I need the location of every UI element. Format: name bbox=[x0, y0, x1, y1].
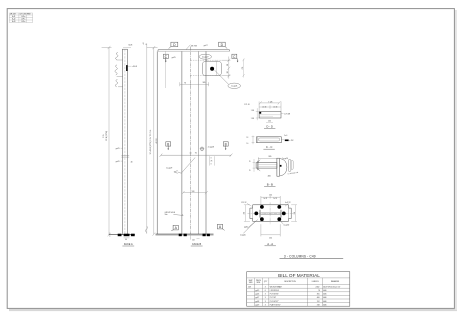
bracket plate outline bbox=[202, 61, 221, 75]
svg-text:58 7/8: 58 7/8 bbox=[191, 45, 198, 47]
A-A center lines bbox=[269, 202, 271, 224]
base left tick bbox=[109, 232, 111, 237]
svg-text:152: 152 bbox=[269, 195, 272, 197]
section A-A bbox=[240, 195, 297, 246]
58 7/8 dim text and slash bbox=[186, 45, 190, 50]
section flag C left bbox=[163, 54, 168, 58]
svg-text:1x pp25: 1x pp25 bbox=[240, 234, 246, 236]
svg-text:B - B: B - B bbox=[267, 182, 273, 186]
svg-text:50ø: 50ø bbox=[165, 214, 168, 216]
column body FACE B bbox=[157, 51, 206, 234]
svg-text:76: 76 bbox=[318, 290, 320, 292]
svg-text:2x 76: 2x 76 bbox=[263, 198, 267, 200]
svg-text:A36: A36 bbox=[323, 296, 326, 299]
break squiggle on dim line bbox=[145, 226, 147, 232]
svg-text:1 3/4: 1 3/4 bbox=[251, 110, 255, 112]
B-B beam body bbox=[256, 163, 277, 168]
svg-text:C49: C49 bbox=[248, 286, 251, 288]
svg-text:7 1/8: 7 1/8 bbox=[268, 101, 272, 103]
base line FACE A bbox=[109, 234, 135, 236]
mid tick marks bbox=[121, 155, 129, 157]
D-D weld square bbox=[259, 112, 261, 114]
section flag A left bbox=[173, 225, 178, 230]
svg-text:254: 254 bbox=[294, 212, 296, 215]
B-B outer flange stadiums bbox=[288, 159, 291, 171]
svg-text:0: 0 bbox=[146, 44, 147, 46]
sheet shadow bbox=[9, 309, 457, 311]
svg-text:pp28: pp28 bbox=[255, 301, 259, 303]
svg-text:pp27: pp27 bbox=[204, 45, 208, 47]
svg-text:A36: A36 bbox=[323, 289, 326, 292]
svg-text:A36: A36 bbox=[323, 300, 326, 303]
svg-text:25: 25 bbox=[249, 161, 251, 163]
B-B left weld ticks bbox=[258, 160, 260, 162]
svg-text:305: 305 bbox=[268, 156, 271, 158]
column web hidden line bbox=[124, 49, 126, 234]
callout ellipse bottom right bbox=[228, 83, 241, 88]
center line dash-dot bbox=[189, 47, 191, 237]
svg-text:3: 3 bbox=[265, 301, 266, 303]
svg-text:1x pp29: 1x pp29 bbox=[166, 167, 172, 169]
C-C inner slot bbox=[258, 138, 279, 141]
svg-text:254: 254 bbox=[244, 212, 246, 215]
svg-text:A572 GR.50 3/4-1 1/2": A572 GR.50 3/4-1 1/2" bbox=[323, 285, 340, 288]
section flag D right bbox=[219, 42, 226, 46]
svg-text:B: B bbox=[225, 142, 227, 146]
section flag D left bbox=[171, 42, 178, 46]
section flag B left bbox=[166, 142, 171, 146]
svg-text:A36: A36 bbox=[323, 303, 326, 306]
D-D second dim row bbox=[259, 105, 281, 108]
svg-text:pp27: pp27 bbox=[255, 297, 259, 299]
svg-text:pp29: pp29 bbox=[255, 304, 259, 306]
svg-text:3: 3 bbox=[211, 163, 212, 165]
squiggle tie lines bbox=[117, 60, 123, 87]
svg-text:3: 3 bbox=[265, 297, 266, 299]
svg-text:W10X49 BEAM: W10X49 BEAM bbox=[270, 285, 282, 288]
A-A bolt holes bbox=[260, 205, 264, 209]
svg-text:12'-4 [3759]: 12'-4 [3759] bbox=[106, 131, 108, 141]
svg-text:pp25: pp25 bbox=[255, 290, 259, 292]
svg-text:12'-4 5/8 [3775] C.G. TO C.G.: 12'-4 5/8 [3775] C.G. TO C.G. bbox=[150, 129, 152, 154]
svg-text:1x pp26: 1x pp26 bbox=[231, 86, 237, 88]
section flag A right bbox=[217, 224, 222, 229]
D-D top dim bbox=[259, 101, 281, 111]
base line FACE B bbox=[156, 233, 214, 235]
svg-text:318: 318 bbox=[317, 304, 320, 306]
svg-text:38: 38 bbox=[227, 71, 229, 73]
D-D right note bbox=[281, 113, 284, 115]
section C-C bbox=[247, 135, 294, 149]
svg-text:76: 76 bbox=[211, 160, 213, 162]
svg-text:3: 3 bbox=[265, 294, 266, 296]
svg-text:1.0Pcs: 1.0Pcs bbox=[21, 19, 26, 21]
weld squiggle 1 bbox=[116, 52, 119, 59]
weld squiggle 2 bbox=[115, 65, 117, 75]
+50.8 label with leader bbox=[128, 65, 131, 67]
svg-text:1x pp30: 1x pp30 bbox=[284, 224, 290, 226]
work point target bbox=[200, 147, 203, 150]
FACE B view bbox=[145, 42, 244, 246]
flange hidden edge bbox=[197, 51, 199, 234]
svg-text:REMARKS: REMARKS bbox=[331, 280, 340, 283]
svg-text:1 3/4: 1 3/4 bbox=[251, 118, 255, 120]
svg-text:MK LIST: MK LIST bbox=[10, 14, 16, 16]
svg-text:6: 6 bbox=[265, 290, 266, 292]
svg-text:pp29: pp29 bbox=[116, 161, 120, 163]
svg-text:D - D: D - D bbox=[266, 125, 273, 129]
svg-text:305: 305 bbox=[317, 294, 320, 296]
lower mid dim 7 5/8 bbox=[182, 191, 208, 194]
svg-text:DESCRIPTION: DESCRIPTION bbox=[284, 281, 296, 283]
D-D plate bbox=[259, 112, 281, 118]
overall height dimension line FACE A bbox=[102, 46, 112, 236]
svg-text:2x pp27: 2x pp27 bbox=[202, 57, 208, 59]
anchor bolt blobs bbox=[118, 234, 122, 237]
bom data rows bbox=[248, 285, 341, 306]
svg-text:pp25: pp25 bbox=[116, 148, 120, 150]
mid horizontal dim line bbox=[160, 154, 233, 157]
svg-text:3: 3 bbox=[265, 286, 266, 288]
svg-text:1.0Pcs: 1.0Pcs bbox=[21, 16, 26, 18]
svg-text:= 152: = 152 bbox=[289, 140, 293, 142]
C-C plate bbox=[257, 137, 282, 143]
svg-text:1 PL 10: 1 PL 10 bbox=[244, 104, 250, 106]
svg-text:38: 38 bbox=[227, 64, 229, 66]
svg-text:FACE A: FACE A bbox=[124, 243, 133, 246]
FACE A view bbox=[102, 43, 146, 247]
svg-text:PL 9/16"X6": PL 9/16"X6" bbox=[270, 294, 279, 296]
svg-text:13: 13 bbox=[247, 137, 249, 139]
leader from hole to callout bbox=[215, 70, 229, 84]
svg-text:1 PL 32: 1 PL 32 bbox=[241, 202, 247, 204]
revision table top-left bbox=[9, 13, 32, 23]
drawing title bbox=[280, 254, 344, 258]
bracket plate dashed lines bbox=[191, 60, 222, 75]
base under dim 40 bbox=[124, 237, 130, 239]
svg-text:1.0Pcs: 1.0Pcs bbox=[21, 21, 26, 23]
callout ellipse 2x pp27 bbox=[199, 54, 211, 59]
svg-text:BILL OF MATERIAL: BILL OF MATERIAL bbox=[278, 273, 320, 278]
svg-text:406: 406 bbox=[268, 176, 271, 178]
svg-text:pp26: pp26 bbox=[255, 294, 259, 296]
svg-text:152: 152 bbox=[192, 239, 195, 241]
svg-text:PL 9/16"X7": PL 9/16"X7" bbox=[270, 301, 279, 303]
svg-text:C - C: C - C bbox=[266, 145, 273, 149]
dim row under bracket bbox=[180, 82, 209, 86]
svg-text:3: 3 bbox=[211, 158, 212, 160]
svg-text:4x R 22: 4x R 22 bbox=[285, 202, 291, 204]
C-C left stacked dims bbox=[252, 136, 255, 145]
svg-text:GROUT HOLE: GROUT HOLE bbox=[165, 212, 176, 214]
svg-text:152: 152 bbox=[317, 301, 320, 303]
A-A right dim column bbox=[291, 205, 297, 222]
svg-text:PL 7/16": PL 7/16" bbox=[270, 297, 277, 299]
svg-text:1x R 3/8: 1x R 3/8 bbox=[284, 113, 290, 115]
svg-text:406: 406 bbox=[317, 297, 320, 299]
under-base tick and dim bbox=[189, 236, 191, 239]
svg-text:3 - COLUMNS - C49: 3 - COLUMNS - C49 bbox=[284, 254, 316, 258]
svg-text:L76X76X9.5: L76X76X9.5 bbox=[270, 290, 279, 292]
A-A side plate inner lines bbox=[253, 208, 289, 219]
section D-D bbox=[244, 101, 290, 128]
cap plate top of FACE B bbox=[158, 50, 230, 52]
svg-text:2'-1: 2'-1 bbox=[242, 67, 244, 70]
B-B column flange curve bbox=[280, 159, 287, 176]
overall height dim line FACE B (left of view) bbox=[147, 44, 158, 236]
A-A bottom dims bbox=[261, 224, 280, 236]
A-A bottom-left leaders bbox=[247, 220, 258, 229]
svg-text:FLAT 9/16"X2": FLAT 9/16"X2" bbox=[270, 303, 281, 306]
anchor bolt blobs FACE B bbox=[179, 234, 182, 237]
bracket inner vertical edge bbox=[216, 60, 218, 75]
section flag B right bbox=[223, 142, 228, 146]
svg-text:+50.8: +50.8 bbox=[132, 66, 138, 68]
svg-text:76: 76 bbox=[190, 153, 192, 155]
svg-text:7 5/8: 7 5/8 bbox=[191, 191, 195, 193]
B-B left stacked dims bbox=[253, 159, 256, 172]
svg-text:QTY LIST: QTY LIST bbox=[20, 14, 27, 16]
right chain dim on bracket bbox=[222, 57, 231, 79]
stiffener edge top bbox=[164, 51, 166, 88]
svg-text:25: 25 bbox=[249, 170, 251, 172]
svg-text:A36: A36 bbox=[323, 293, 326, 296]
svg-text:2x 44: 2x 44 bbox=[262, 107, 266, 109]
svg-text:40: 40 bbox=[125, 239, 127, 241]
svg-text:B: B bbox=[167, 142, 169, 146]
svg-text:3: 3 bbox=[265, 304, 266, 306]
D-D left stacked dims bbox=[256, 108, 259, 120]
svg-text:10: 10 bbox=[247, 143, 249, 145]
svg-text:2x 76: 2x 76 bbox=[273, 198, 277, 200]
black weld tick on column bbox=[126, 65, 128, 71]
svg-text:pp28: pp28 bbox=[244, 227, 248, 229]
A-A base plate outline bbox=[250, 205, 291, 222]
A-A left dim column bbox=[244, 205, 250, 222]
svg-text:2432: 2432 bbox=[316, 286, 320, 288]
bolt hole (filled) bbox=[210, 67, 214, 71]
B-B weld dot bbox=[280, 165, 282, 167]
svg-text:2x 44: 2x 44 bbox=[273, 107, 277, 109]
svg-text:A - A: A - A bbox=[267, 242, 273, 246]
svg-text:2x 6: 2x 6 bbox=[284, 135, 287, 137]
svg-text:152: 152 bbox=[269, 237, 272, 239]
section B-B bbox=[249, 156, 299, 186]
A-A column section bbox=[259, 210, 282, 218]
bom header texts bbox=[249, 280, 340, 284]
svg-text:C.G.: C.G. bbox=[103, 134, 105, 138]
svg-text:305: 305 bbox=[203, 82, 206, 84]
svg-text:FACE B: FACE B bbox=[192, 243, 201, 246]
svg-text:2x pp28: 2x pp28 bbox=[208, 147, 214, 149]
svg-text:LENGTH: LENGTH bbox=[312, 281, 320, 283]
svg-text:40: 40 bbox=[131, 161, 133, 163]
column body FACE A bbox=[122, 49, 127, 234]
section flag C right bbox=[232, 54, 237, 58]
svg-text:76: 76 bbox=[184, 83, 186, 85]
B-B end plate pp26 bbox=[277, 158, 280, 176]
svg-text:76: 76 bbox=[195, 153, 197, 155]
weld squiggle 3 bbox=[115, 79, 117, 86]
svg-text:pp25: pp25 bbox=[172, 57, 176, 59]
far right dim 2'-1 bbox=[242, 58, 244, 77]
bom header/body lines bbox=[247, 278, 350, 306]
bill of material table bbox=[247, 272, 350, 307]
